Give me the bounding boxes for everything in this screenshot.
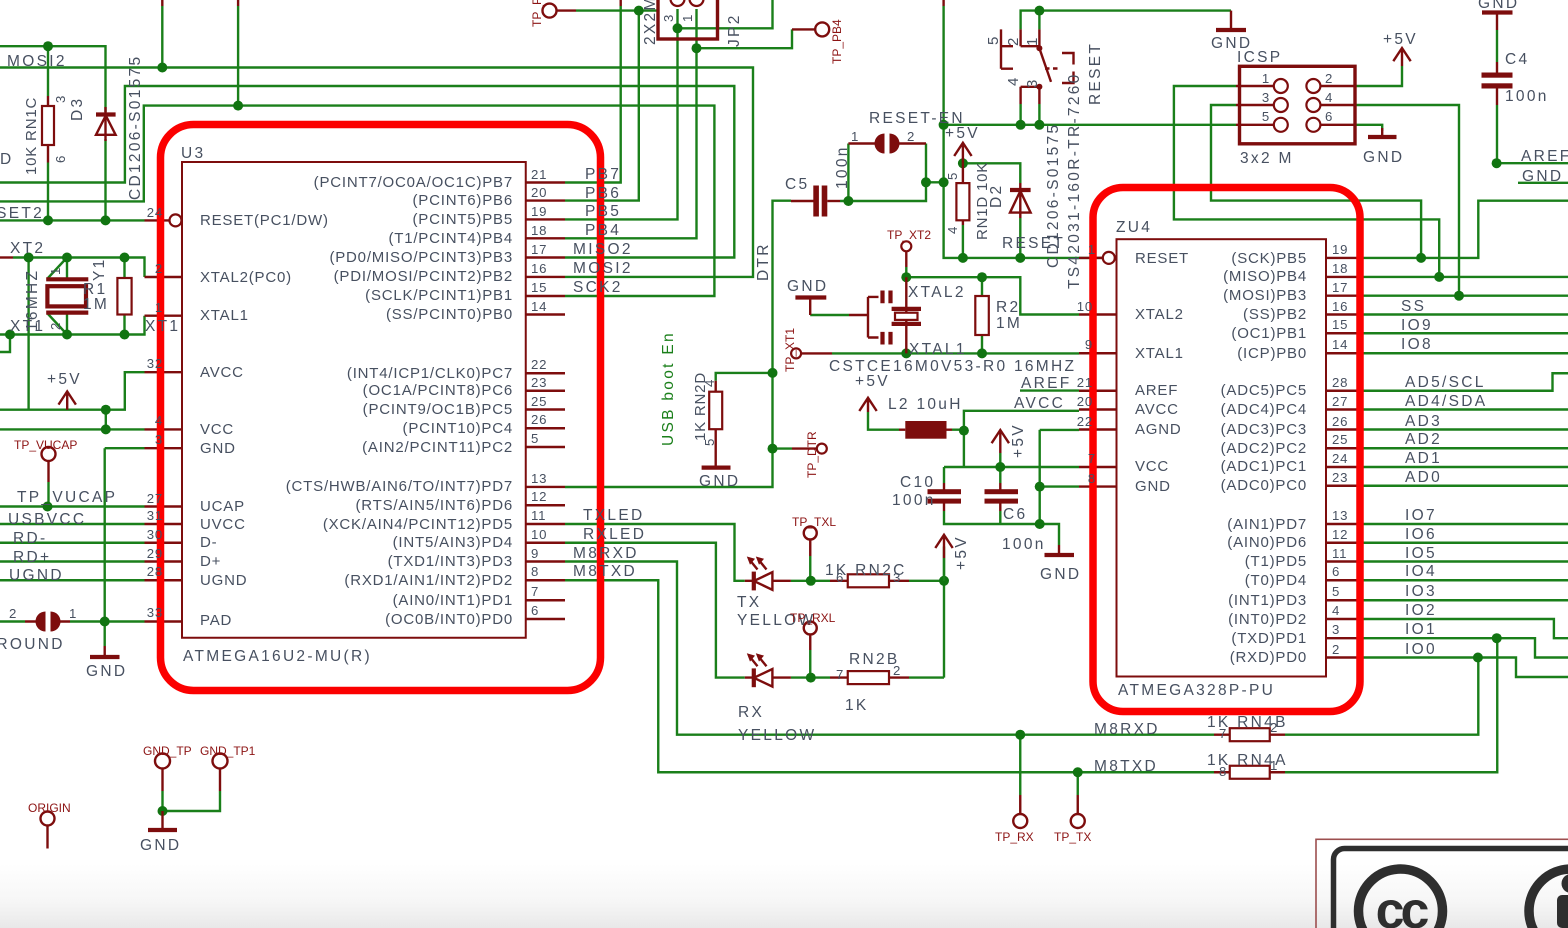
svg-text:2: 2	[155, 261, 163, 276]
svg-text:3: 3	[1024, 79, 1041, 88]
wire R2 top/bottom leads	[981, 277, 983, 353]
svg-text:IO0: IO0	[1405, 641, 1437, 658]
svg-text:C10: C10	[900, 474, 935, 491]
svg-text:(ADC2)PC2: (ADC2)PC2	[1221, 440, 1307, 457]
svg-text:2: 2	[1325, 71, 1333, 86]
diode D3	[104, 107, 106, 141]
svg-text:+5V: +5V	[945, 125, 980, 142]
svg-text:(INT5/AIN3)PD4: (INT5/AIN3)PD4	[393, 534, 513, 551]
svg-text:(INT4/ICP1/CLK0)PC7: (INT4/ICP1/CLK0)PC7	[347, 365, 513, 382]
wire net IO3 (ZU4 pin 5)	[1364, 599, 1568, 601]
svg-text:RD-: RD-	[13, 530, 47, 547]
wire +5V arrow stem at VCC row	[999, 453, 1001, 467]
svg-text:(ADC0)PC0: (ADC0)PC0	[1221, 477, 1307, 494]
svg-text:(TXD)PD1: (TXD)PD1	[1231, 630, 1307, 647]
svg-text:6: 6	[836, 570, 844, 585]
svg-text:(PCINT7/OC0A/OC1C)PB7: (PCINT7/OC0A/OC1C)PB7	[314, 174, 513, 191]
wire GND stem below PAD junction	[103, 622, 105, 647]
svg-text:XT2: XT2	[10, 240, 45, 257]
svg-text:ATMEGA328P-PU: ATMEGA328P-PU	[1118, 682, 1275, 699]
wire net UCAP (U3 pin 27)	[0, 505, 145, 507]
wire C4 bottom to AREF rail	[1496, 105, 1498, 163]
svg-text:+5V: +5V	[855, 373, 890, 390]
svg-text:11: 11	[531, 508, 546, 523]
svg-text:10: 10	[1077, 299, 1093, 314]
svg-text:7: 7	[531, 584, 539, 599]
svg-text:15: 15	[1332, 317, 1348, 332]
svg-text:TP_VUCAP: TP_VUCAP	[17, 489, 117, 506]
svg-text:8: 8	[1088, 471, 1096, 486]
svg-text:GND_TP1: GND_TP1	[200, 744, 256, 758]
wire net GND stub at right edge	[1518, 182, 1568, 184]
wire net PB7 (U3 pin 21 to top)	[565, 6, 621, 183]
inductor L2	[905, 421, 946, 439]
wire net IO5 (ZU4 pin 11)	[1364, 560, 1568, 562]
wire net UGND (U3 pin 28)	[0, 579, 145, 581]
person head	[1562, 874, 1568, 893]
wire RESET-EN pin1 vertical	[847, 144, 849, 202]
solder jumper RESET-EN	[848, 142, 926, 144]
wire +5V to L2 left	[868, 412, 899, 430]
svg-text:XTAL2: XTAL2	[908, 284, 966, 301]
svg-text:RESET: RESET	[1002, 235, 1065, 252]
svg-text:TP_PB6: TP_PB6	[530, 0, 544, 27]
wire vertical from top edge to SCK2	[237, 0, 239, 6]
svg-text:5: 5	[702, 438, 717, 446]
svg-text:9: 9	[1085, 337, 1093, 352]
svg-text:(PCINT6)PB6: (PCINT6)PB6	[413, 192, 514, 209]
wire net IO4 (ZU4 pin 6)	[1364, 579, 1568, 581]
svg-text:+5V: +5V	[47, 371, 82, 388]
svg-text:32: 32	[147, 356, 163, 371]
ZU4 right pin stubs	[1326, 258, 1364, 658]
svg-text:(MISO)PB4: (MISO)PB4	[1223, 268, 1307, 285]
svg-text:IO9: IO9	[1401, 317, 1433, 334]
svg-text:(AIN0/INT1)PD1: (AIN0/INT1)PD1	[393, 592, 513, 609]
wire ICSP pin1 to MISO (ZU4 pin 18)	[1174, 86, 1439, 277]
wire net GND row (ZU4 pin 8)	[1040, 485, 1079, 487]
svg-text:TP_TXL: TP_TXL	[792, 515, 836, 529]
wire +5V to VCC row	[105, 410, 107, 430]
svg-text:6: 6	[1332, 564, 1340, 579]
svg-text:CD1206-S01575: CD1206-S01575	[127, 55, 144, 200]
svg-text:VCC: VCC	[200, 421, 234, 438]
LED TX yellow	[745, 580, 791, 582]
wire TX LED cathode to RN2C junction	[791, 580, 830, 582]
CC license outer frame	[1316, 839, 1568, 928]
svg-text:29: 29	[147, 546, 163, 561]
svg-text:D-: D-	[200, 534, 217, 551]
svg-text:5: 5	[531, 431, 539, 446]
test point GND_TP	[155, 754, 170, 769]
svg-text:RN2B: RN2B	[849, 651, 900, 668]
svg-text:(SS/PCINT0)PB0: (SS/PCINT0)PB0	[386, 306, 513, 323]
svg-text:IO5: IO5	[1405, 545, 1437, 562]
svg-text:100n: 100n	[1002, 536, 1046, 553]
svg-text:(PDI/MOSI/PCINT2)PB2: (PDI/MOSI/PCINT2)PB2	[334, 268, 513, 285]
svg-text:(INT0)PD2: (INT0)PD2	[1228, 611, 1307, 628]
svg-text:AD0: AD0	[1405, 469, 1442, 486]
wire net PB5 (U3 pin 19 to JP2 pin 3)	[565, 28, 678, 219]
wire net IO2 (ZU4 pin 4)	[1364, 619, 1568, 638]
connector JP2	[658, 0, 718, 39]
wire RESET row to ICSP pin 5	[944, 124, 1236, 126]
diode D2	[1019, 183, 1021, 218]
wire net IO9 (ZU4 pin 15)	[1364, 332, 1568, 334]
svg-text:UCAP: UCAP	[200, 498, 245, 515]
svg-text:AD2: AD2	[1405, 431, 1442, 448]
svg-text:18: 18	[1332, 261, 1348, 276]
svg-text:(RXD1/AIN1/INT2)PD2: (RXD1/AIN1/INT2)PD2	[344, 572, 513, 589]
wire RN2C right to +5V vertical	[909, 547, 944, 678]
wire net VCC row (to ZU4 pin 7, C10 top)	[944, 467, 1079, 483]
svg-text:XTAL1: XTAL1	[200, 307, 249, 324]
svg-text:10K RN1C: 10K RN1C	[23, 97, 40, 175]
svg-text:ORIGIN: ORIGIN	[28, 801, 71, 815]
svg-text:2: 2	[907, 129, 915, 144]
svg-text:TXLED: TXLED	[583, 507, 644, 524]
svg-text:RESET: RESET	[1087, 42, 1104, 105]
svg-text:MOSI2: MOSI2	[573, 260, 633, 277]
junction dots	[43, 41, 53, 51]
svg-text:TP_XT2: TP_XT2	[887, 228, 931, 242]
wire net IO7 (ZU4 pin 13)	[1364, 523, 1568, 525]
svg-text:IO6: IO6	[1405, 526, 1437, 543]
wire net AREF to right edge	[1497, 162, 1568, 164]
wire RN1C bottom to RESET2	[47, 163, 49, 221]
wire net RESET2 (left, to U3 pin 24)	[0, 219, 145, 221]
svg-text:IO1: IO1	[1405, 621, 1437, 638]
svg-text:26: 26	[1332, 414, 1348, 429]
wire net SS (ZU4 pin 16)	[1364, 313, 1568, 315]
svg-text:(INT1)PD3: (INT1)PD3	[1228, 592, 1307, 609]
svg-text:IO3: IO3	[1405, 583, 1437, 600]
wire reset button top rail to GND	[1021, 11, 1231, 30]
capacitor C5	[813, 186, 819, 217]
capacitor C6	[999, 483, 1001, 490]
svg-text:GND: GND	[140, 837, 181, 854]
svg-text:2X2M: 2X2M	[642, 0, 659, 45]
svg-text:(ADC5)PC5: (ADC5)PC5	[1221, 382, 1307, 399]
CC license black plate	[1334, 849, 1568, 928]
svg-text:26: 26	[531, 412, 547, 427]
wire net XT1 (to U3 pin 1)	[0, 316, 145, 352]
wire C5 right to RESET-EN loop	[827, 200, 840, 202]
svg-text:30: 30	[147, 527, 163, 542]
svg-text:21: 21	[531, 167, 547, 182]
svg-text:UGND: UGND	[200, 572, 247, 589]
svg-text:XTAL1: XTAL1	[1135, 345, 1184, 362]
svg-text:2: 2	[9, 606, 17, 621]
wire net to RN1C/D3 top rail	[0, 46, 106, 112]
test point TP_PB6 (top)	[543, 4, 557, 18]
wire net USBVCC (U3 pin 31)	[0, 523, 145, 525]
svg-text:(CTS/HWB/AIN6/TO/INT7)PD7: (CTS/HWB/AIN6/TO/INT7)PD7	[286, 478, 513, 495]
svg-text:33: 33	[147, 605, 163, 620]
svg-text:20: 20	[1077, 394, 1093, 409]
ground symbol (reset button rail)	[1230, 11, 1232, 29]
wire RESET main vertical from top	[942, 0, 944, 6]
svg-text:GND: GND	[1135, 478, 1171, 495]
svg-text:AVCC: AVCC	[1014, 395, 1065, 412]
svg-text:4: 4	[1332, 603, 1340, 618]
svg-text:4: 4	[155, 413, 163, 428]
svg-text:PB4: PB4	[585, 222, 621, 239]
svg-text:AREF: AREF	[1521, 148, 1568, 165]
wire net MOSI2 (long run to U3 pin 16)	[0, 68, 753, 277]
wire RN2B right side	[909, 676, 944, 678]
svg-text:(OC0B/INT0)PD0: (OC0B/INT0)PD0	[385, 611, 513, 628]
U3 left pin stubs	[145, 220, 183, 621]
wire ZU4 pin19 SCK east run	[1364, 201, 1568, 258]
wire C4 top to GND symbol	[1496, 30, 1498, 62]
svg-text:GND: GND	[86, 663, 127, 680]
svg-text:5: 5	[1332, 584, 1340, 599]
wire net GND (U3 pin 3) down to PAD row	[105, 448, 145, 621]
ground symbol (C6/C10)	[1058, 545, 1060, 554]
wire RX LED cathode to RN2B junction	[791, 676, 830, 678]
svg-text:ZU4: ZU4	[1116, 219, 1152, 236]
test point GND_TP1	[213, 754, 228, 769]
svg-text:15: 15	[531, 280, 547, 295]
svg-text:PB7: PB7	[585, 166, 621, 183]
wire reset button pin1 lead	[1038, 11, 1040, 30]
wire GND_TP leads	[163, 791, 221, 811]
svg-text:PAD: PAD	[200, 612, 232, 629]
red highlight box around U3	[161, 125, 601, 691]
svg-text:M8TXD: M8TXD	[573, 563, 637, 580]
svg-text:C5: C5	[785, 176, 809, 193]
svg-text:(PD0/MISO/PCINT3)PB3: (PD0/MISO/PCINT3)PB3	[329, 249, 513, 266]
svg-text:3: 3	[53, 95, 68, 103]
ground symbol (resonator)	[795, 295, 826, 299]
test point TP_PB4	[815, 22, 829, 36]
wire TP_RX lead	[1019, 735, 1021, 795]
ZU4 pin 1 inversion circle	[1103, 252, 1115, 264]
svg-text:(OC1A/PCINT8)PC6: (OC1A/PCINT8)PC6	[363, 382, 513, 399]
svg-text:13: 13	[531, 471, 547, 486]
svg-text:1: 1	[680, 14, 695, 22]
solder jumper GROUND	[25, 620, 70, 622]
svg-text:(ADC3)PC3: (ADC3)PC3	[1221, 421, 1307, 438]
svg-text:9: 9	[531, 546, 539, 561]
resistor RN4A	[1214, 771, 1285, 773]
wire TP_VUCAP lead	[47, 482, 49, 507]
svg-text:AD1: AD1	[1405, 450, 1442, 467]
svg-text:28: 28	[147, 564, 163, 579]
svg-text:12: 12	[531, 489, 547, 504]
svg-text:R2: R2	[996, 299, 1020, 316]
svg-text:25: 25	[1332, 432, 1348, 447]
red highlight box around ZU4	[1093, 188, 1360, 712]
+5V symbol (ZU4 VCC)	[992, 430, 1009, 453]
wire net M8RXD (U3 pin 9 to RN4B to IO0)	[565, 562, 1478, 735]
svg-text:(SS)PB2: (SS)PB2	[1243, 306, 1307, 323]
svg-text:TP_RX: TP_RX	[995, 830, 1034, 844]
svg-text:2: 2	[1332, 642, 1340, 657]
svg-text:TS42031-160R-TR-7260: TS42031-160R-TR-7260	[1066, 72, 1083, 289]
wire TP_PB6 test point lead	[557, 9, 577, 11]
svg-text:M8RXD: M8RXD	[1094, 721, 1160, 738]
ZU4 ATMEGA328P box	[1117, 239, 1327, 676]
wire net AD5/SCL (ZU4 pin 28)	[1364, 373, 1568, 391]
wire net AD4/SDA (ZU4 pin 27)	[1364, 408, 1568, 410]
svg-text:22: 22	[1077, 414, 1093, 429]
svg-text:1: 1	[1024, 37, 1041, 46]
svg-text:2: 2	[1005, 37, 1022, 46]
resistor R2	[981, 296, 983, 336]
wire D3 bottom to RESET2	[104, 139, 106, 220]
svg-text:5: 5	[1262, 109, 1270, 124]
svg-text:11: 11	[1332, 546, 1347, 561]
wire vertical from top edge to MOSI2	[161, 0, 163, 6]
ground symbol (U3 PAD)	[103, 646, 105, 656]
svg-text:6: 6	[1325, 109, 1333, 124]
wire net IO6 (ZU4 pin 12)	[1364, 542, 1568, 544]
wire net IO0 (ZU4 pin 2)	[1364, 658, 1568, 678]
wire net SCK2 (to U3 pin 15)	[0, 106, 714, 296]
svg-text:TP_VUCAP: TP_VUCAP	[14, 438, 77, 452]
wire net DTR (C5 to U3 pin 13)	[565, 201, 791, 487]
svg-text:GND_TP: GND_TP	[143, 744, 192, 758]
resistor RN2B	[830, 676, 909, 678]
svg-text:IO8: IO8	[1401, 336, 1433, 353]
wire TP_XT2 lead	[905, 267, 907, 277]
svg-text:3: 3	[661, 14, 676, 22]
wire net AGND (ZU4 pin 22)	[1040, 430, 1079, 524]
svg-text:MISO2: MISO2	[573, 241, 633, 258]
svg-text:(RXD)PD0: (RXD)PD0	[1230, 649, 1307, 666]
wire TP_RXL lead	[809, 650, 811, 678]
svg-text:XT1: XT1	[145, 318, 180, 335]
test point TP_XT1	[791, 348, 801, 358]
resistor RN4B	[1214, 734, 1285, 736]
svg-text:C4: C4	[1505, 51, 1529, 68]
wire RN1C top branch	[47, 46, 49, 96]
wire net AD3 (ZU4 pin 26)	[1364, 428, 1568, 430]
wire net XT2 (to U3 pin 2)	[0, 256, 13, 258]
LED RX yellow	[745, 676, 791, 678]
svg-text:IO7: IO7	[1405, 507, 1437, 524]
wire crystal diagonal ticks	[48, 258, 67, 335]
test point TP_TXL	[804, 527, 817, 540]
svg-text:TP_XT1: TP_XT1	[783, 328, 797, 372]
svg-text:L2 10uH: L2 10uH	[888, 396, 963, 413]
svg-text:20: 20	[531, 185, 547, 200]
+5V symbol (RN1D)	[954, 143, 971, 164]
svg-text:M8RXD: M8RXD	[573, 545, 639, 562]
test point TP_XT2	[901, 241, 911, 251]
svg-text:(MOSI)PB3: (MOSI)PB3	[1223, 287, 1307, 304]
svg-text:6: 6	[53, 155, 68, 163]
svg-text:XTAL1: XTAL1	[909, 341, 967, 358]
svg-text:12: 12	[1332, 527, 1348, 542]
person body	[1557, 895, 1568, 928]
svg-text:14: 14	[1332, 337, 1348, 352]
+5V symbol (RN2C rail)	[935, 535, 952, 558]
svg-text:17: 17	[1332, 280, 1348, 295]
svg-text:22: 22	[531, 357, 547, 372]
svg-text:13: 13	[1332, 508, 1348, 523]
svg-text:3: 3	[155, 432, 163, 447]
wire net TXLED (U3 pin 11 to TX LED)	[565, 524, 745, 581]
svg-text:7: 7	[836, 667, 844, 682]
test point TP_RX	[1013, 814, 1027, 828]
svg-text:(ADC1)PC1: (ADC1)PC1	[1221, 458, 1307, 475]
wire reset button bottom leads	[1021, 104, 1040, 125]
svg-text:1: 1	[1088, 242, 1096, 257]
svg-text:4: 4	[702, 379, 717, 387]
svg-text:cc: cc	[1376, 882, 1429, 928]
CC person icon circle	[1529, 869, 1568, 928]
svg-text:19: 19	[531, 204, 547, 219]
page bottom shadow gradient	[0, 864, 1568, 928]
wire TP_TX lead	[1077, 772, 1079, 795]
svg-text:XTAL2(PC0): XTAL2(PC0)	[200, 269, 292, 286]
wire net AVCC (ZU4 pin 20)	[964, 411, 1079, 431]
svg-text:D2: D2	[988, 184, 1005, 208]
svg-text:AD5/SCL: AD5/SCL	[1405, 374, 1486, 391]
wire net RD+ (U3 pin 29)	[0, 560, 145, 562]
svg-text:C6: C6	[1003, 506, 1027, 523]
svg-text:+5V: +5V	[1010, 423, 1027, 458]
svg-text:GND: GND	[699, 473, 740, 490]
svg-text:(T1)PD5: (T1)PD5	[1245, 553, 1307, 570]
wire net IO8 (ZU4 pin 14)	[1364, 352, 1568, 354]
svg-text:5: 5	[945, 172, 960, 180]
capacitor C10	[943, 483, 945, 490]
wire net MISO2 (to U3 pin 17)	[0, 86, 734, 258]
svg-text:6: 6	[531, 603, 539, 618]
+5V symbol (U3 AVCC rail)	[59, 391, 76, 409]
svg-text:21: 21	[1077, 375, 1093, 390]
svg-text:RXLED: RXLED	[583, 526, 646, 543]
svg-text:10: 10	[531, 527, 547, 542]
svg-text:GND: GND	[787, 278, 828, 295]
svg-text:TP_DTR: TP_DTR	[805, 431, 819, 478]
wire RN1D bottom lead	[962, 225, 964, 258]
CC circle logo	[1359, 869, 1443, 928]
svg-text:(T1/PCINT4)PB4: (T1/PCINT4)PB4	[388, 230, 513, 247]
ground symbol (ICSP pin6)	[1381, 128, 1383, 136]
wire JP2 pin3 down segment and east run	[678, 0, 773, 28]
connector ICSP	[1240, 66, 1356, 144]
svg-text:(SCLK/PCINT1)PB1: (SCLK/PCINT1)PB1	[365, 287, 513, 304]
resonator Q CSTCE16M0V53	[849, 297, 879, 338]
svg-text:100n: 100n	[892, 492, 936, 509]
resistor RN1C	[47, 96, 49, 163]
svg-text:D: D	[0, 151, 14, 168]
svg-text:27: 27	[147, 491, 163, 506]
svg-text:1: 1	[48, 267, 63, 275]
wire net GROUND jumper row to U3 PAD pin 33	[0, 620, 145, 622]
svg-text:D3: D3	[69, 97, 86, 121]
wire net RD- (U3 pin 30)	[0, 542, 145, 544]
wire RESET stub into ZU4 pin 1	[1096, 257, 1103, 259]
svg-text:(XCK/AIN4/PCINT12)PD5: (XCK/AIN4/PCINT12)PD5	[323, 516, 513, 533]
svg-text:2: 2	[893, 663, 901, 678]
wire net PB4 (U3 pin 18 to JP2 pin 1)	[565, 48, 697, 238]
svg-text:AGND: AGND	[1135, 421, 1182, 438]
svg-text:ATMEGA16U2-MU(R): ATMEGA16U2-MU(R)	[183, 648, 372, 665]
svg-text:USBVCC: USBVCC	[8, 511, 86, 528]
test point TP_TX	[1071, 814, 1085, 828]
test point TP_DTR	[817, 444, 827, 454]
svg-text:UGND: UGND	[9, 567, 64, 584]
svg-text:1: 1	[1262, 71, 1270, 86]
svg-text:100n: 100n	[1505, 88, 1549, 105]
svg-text:AVCC: AVCC	[1135, 401, 1179, 418]
